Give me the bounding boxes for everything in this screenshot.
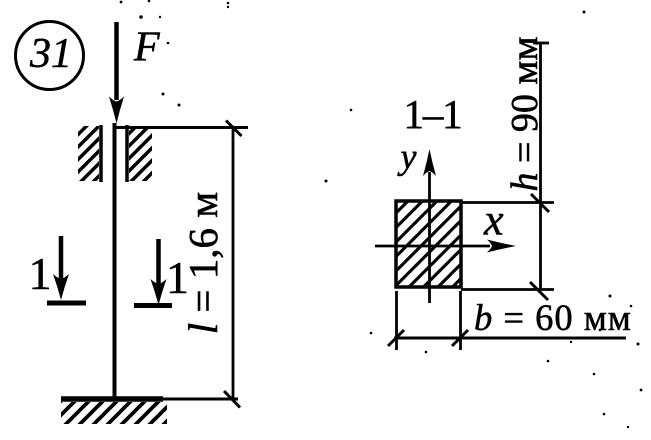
b dimension extension right <box>459 291 462 350</box>
section mark 1 left <box>29 236 87 303</box>
svg-text:1: 1 <box>29 248 52 299</box>
cross-section rectangle hatched <box>396 201 461 287</box>
top support left block <box>78 125 101 182</box>
force F arrow <box>109 22 124 124</box>
h dimension extension top <box>461 201 554 204</box>
b dimension line <box>388 330 626 346</box>
y axis <box>423 149 436 303</box>
ground line <box>61 398 238 401</box>
h dimension extension bottom <box>461 288 554 291</box>
ground hatch <box>61 402 167 424</box>
x axis <box>375 240 516 253</box>
circle label 31 <box>16 22 84 90</box>
svg-text:b = 60 мм: b = 60 мм <box>474 297 632 338</box>
column (vertical rod) <box>113 123 117 399</box>
svg-text:l = 1,6 м: l = 1,6 м <box>180 192 226 334</box>
section mark 1 right <box>134 239 189 306</box>
dimension line l <box>224 121 242 408</box>
h dimension line <box>530 42 549 300</box>
top extension line to dimension <box>114 126 248 129</box>
b dimension extension left <box>395 291 398 350</box>
svg-text:F: F <box>133 25 160 71</box>
svg-text:y: y <box>398 137 417 177</box>
svg-text:h = 90 мм: h = 90 мм <box>504 36 546 191</box>
scan noise specks <box>120 0 643 428</box>
svg-text:1–1: 1–1 <box>404 91 462 137</box>
svg-text:31: 31 <box>29 31 72 77</box>
top support right block <box>127 125 152 182</box>
